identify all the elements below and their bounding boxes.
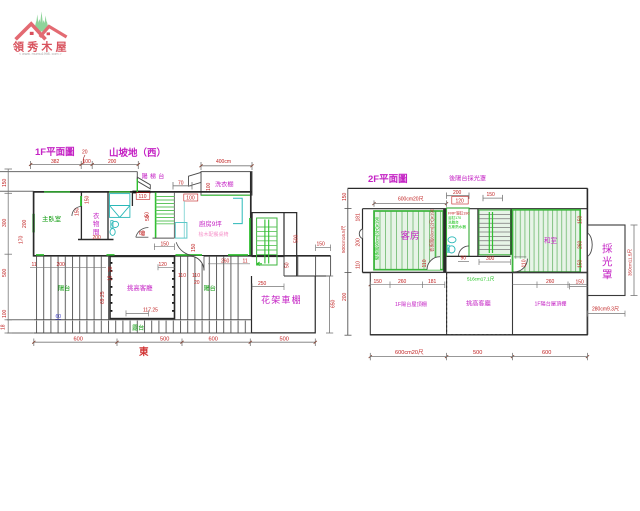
bath toilet xyxy=(448,246,455,253)
deck lower line xyxy=(34,319,251,321)
dim line 400cm xyxy=(201,162,252,170)
svg-text:60: 60 xyxy=(141,230,147,236)
entry steps xyxy=(297,256,299,276)
bath door arc xyxy=(136,228,149,238)
corridor wall xyxy=(477,209,479,257)
window west wall xyxy=(32,214,34,233)
stair1 inner green xyxy=(257,218,277,265)
svg-text:150: 150 xyxy=(577,259,583,268)
svg-text:300: 300 xyxy=(486,256,495,262)
svg-text:挑高客廳: 挑高客廳 xyxy=(466,300,491,308)
svg-text:東: 東 xyxy=(138,346,149,358)
ground line low1 xyxy=(7,319,34,321)
basin xyxy=(110,229,115,236)
svg-text:382: 382 xyxy=(51,159,60,165)
svg-text:170: 170 xyxy=(19,235,25,244)
svg-text:500: 500 xyxy=(294,234,300,243)
svg-text:200: 200 xyxy=(356,238,362,247)
stair1 landing xyxy=(284,213,297,276)
top wall thick seg xyxy=(132,191,150,194)
deck band upper left hatch xyxy=(34,257,110,320)
middle box dashed xyxy=(447,273,513,335)
dim 120 boxed xyxy=(452,196,468,204)
dim 110 boxed xyxy=(136,193,150,200)
svg-text:260: 260 xyxy=(577,240,583,249)
right roof box xyxy=(513,273,588,335)
stair1 outer xyxy=(252,213,284,257)
ground line low2 xyxy=(7,332,34,334)
svg-text:500: 500 xyxy=(2,268,8,277)
svg-text:650: 650 xyxy=(331,299,337,308)
wall under closet xyxy=(78,239,114,241)
svg-text:100: 100 xyxy=(83,159,92,165)
tatami door wedge xyxy=(514,259,527,272)
svg-text:200: 200 xyxy=(93,235,102,241)
logo left roof xyxy=(16,24,46,40)
svg-text:150: 150 xyxy=(342,192,348,201)
svg-text:洗衣棚: 洗衣棚 xyxy=(215,181,234,189)
laundry door flap xyxy=(189,172,202,186)
bath basin xyxy=(448,237,456,243)
left wall xyxy=(362,209,364,273)
guest room hatch xyxy=(374,211,443,270)
deck band lower hatch xyxy=(34,321,251,333)
deck band upper right hatch xyxy=(175,257,241,320)
svg-text:陽台: 陽台 xyxy=(204,285,216,293)
bottom line lower boxes xyxy=(370,334,587,336)
top wall xyxy=(363,208,588,210)
svg-text:150: 150 xyxy=(317,242,326,248)
PLAN1F xyxy=(0,147,589,358)
svg-text:69.25: 69.25 xyxy=(100,291,106,304)
balcony door arc xyxy=(190,256,205,271)
svg-text:主臥室: 主臥室 xyxy=(42,214,62,223)
left dim line xyxy=(5,169,13,333)
stair1 rails xyxy=(264,220,266,264)
left roof box xyxy=(370,273,446,335)
svg-text:110: 110 xyxy=(192,273,200,279)
closet wall xyxy=(80,192,82,240)
svg-text:衣櫥寬60cm(2尺)x190: 衣櫥寬60cm(2尺)x190 xyxy=(429,208,436,252)
svg-text:50: 50 xyxy=(284,262,290,268)
logo trees xyxy=(34,12,48,32)
svg-text:浴缸170: 浴缸170 xyxy=(448,215,461,220)
svg-text:光: 光 xyxy=(602,255,613,268)
svg-text:< www. mumu1998. com >: < www. mumu1998. com > xyxy=(19,52,62,56)
toilet xyxy=(112,221,119,227)
svg-text:2F平面圖: 2F平面圖 xyxy=(368,174,408,185)
svg-text:桧木配餐桌椅: 桧木配餐桌椅 xyxy=(199,231,229,238)
outer top line xyxy=(348,187,588,189)
svg-text:120: 120 xyxy=(456,199,465,205)
wall under bath xyxy=(447,255,511,257)
svg-text:和室: 和室 xyxy=(544,236,558,245)
stairs2 rails xyxy=(488,212,490,253)
kitchen counter xyxy=(233,198,242,223)
svg-text:衣: 衣 xyxy=(93,211,100,220)
master door arc xyxy=(72,207,82,217)
svg-text:600: 600 xyxy=(542,350,551,356)
svg-text:200: 200 xyxy=(342,292,348,301)
rear stair bottom xyxy=(153,237,175,239)
svg-text:117.25: 117.25 xyxy=(143,308,158,314)
logo left roof window xyxy=(30,32,34,35)
svg-text:600cm20尺: 600cm20尺 xyxy=(395,349,424,356)
bottom dim line 2F xyxy=(370,353,587,360)
stairs2 xyxy=(479,210,511,255)
svg-text:500: 500 xyxy=(160,337,169,343)
right wall xyxy=(586,188,588,334)
LOGO xyxy=(12,12,70,57)
svg-text:50: 50 xyxy=(145,215,151,221)
svg-text:挑高客廳: 挑高客廳 xyxy=(127,283,153,292)
svg-text:260: 260 xyxy=(398,279,407,285)
svg-text:181: 181 xyxy=(428,279,437,285)
carport box xyxy=(252,276,316,333)
window top kitchen xyxy=(201,194,250,196)
right wall kitchen xyxy=(250,172,252,257)
svg-text:260: 260 xyxy=(546,279,555,285)
right roof dims xyxy=(513,282,588,289)
svg-text:1F平面圖: 1F平面圖 xyxy=(35,147,75,158)
svg-text:150: 150 xyxy=(374,279,383,285)
pilaster top gray xyxy=(136,172,138,179)
dim 150 skylight line xyxy=(570,283,588,289)
wall stairs-tatami xyxy=(511,209,513,255)
svg-text:600cm20尺: 600cm20尺 xyxy=(398,197,424,203)
living room box xyxy=(110,256,175,318)
wall guest-bath xyxy=(443,209,446,273)
green pilaster top xyxy=(136,179,138,193)
svg-text:150: 150 xyxy=(487,192,496,198)
svg-text:20: 20 xyxy=(108,266,114,272)
yangmeitai door flap xyxy=(137,177,150,189)
door bump right wall xyxy=(587,233,592,257)
laundry box xyxy=(201,172,252,196)
stair1 arrow xyxy=(257,262,262,266)
skylight right dim xyxy=(631,225,638,296)
svg-text:90: 90 xyxy=(461,255,467,261)
svg-text:1F陽台屋頂棚: 1F陽台屋頂棚 xyxy=(535,300,567,308)
PLAN2F xyxy=(341,174,638,360)
svg-text:400cm: 400cm xyxy=(216,159,231,165)
main top wall xyxy=(34,191,252,193)
living room studs xyxy=(111,262,174,312)
bath wall right xyxy=(131,192,133,206)
bath box xyxy=(447,208,470,256)
svg-text:FRP浴缸190: FRP浴缸190 xyxy=(448,211,470,216)
entry platform xyxy=(284,275,331,277)
top wall window segs xyxy=(44,191,70,193)
svg-text:壁櫥寬90cm(3尺)x190: 壁櫥寬90cm(3尺)x190 xyxy=(374,216,381,260)
svg-text:300: 300 xyxy=(2,218,8,227)
logo right roof xyxy=(40,26,67,37)
svg-text:110: 110 xyxy=(422,259,428,267)
hall door arc xyxy=(176,242,196,255)
stair1 treads xyxy=(257,227,277,255)
svg-text:110: 110 xyxy=(522,259,528,267)
svg-text:250: 250 xyxy=(258,281,267,287)
svg-text:陽梯台: 陽梯台 xyxy=(142,173,167,181)
pantry cyan line xyxy=(183,201,185,238)
svg-text:150: 150 xyxy=(577,215,583,224)
top dim line xyxy=(31,161,139,169)
rear stair left green xyxy=(155,192,157,238)
pantry cyan box xyxy=(175,223,187,239)
ground line mid xyxy=(0,190,34,192)
svg-text:500: 500 xyxy=(473,350,482,356)
tatami room xyxy=(513,210,581,272)
svg-text:150: 150 xyxy=(191,243,197,252)
stairs2 treads xyxy=(479,214,511,249)
svg-text:18: 18 xyxy=(108,275,114,281)
svg-text:山坡地（西）: 山坡地（西） xyxy=(109,147,166,159)
svg-text:1F陽台屋頂棚: 1F陽台屋頂棚 xyxy=(395,300,427,308)
svg-text:露台: 露台 xyxy=(132,324,144,332)
entry west line xyxy=(283,257,285,277)
svg-text:110: 110 xyxy=(139,194,147,200)
closet wall window xyxy=(80,196,82,206)
outer left dim line xyxy=(347,188,349,335)
bottom wall xyxy=(34,255,331,257)
svg-text:後陽台採光罩: 後陽台採光罩 xyxy=(449,175,486,183)
left wall xyxy=(33,191,35,256)
kitchen dim 100 boxed xyxy=(184,194,198,201)
svg-text:100: 100 xyxy=(186,196,195,202)
svg-text:洗臉台: 洗臉台 xyxy=(448,220,459,225)
dim arrows xyxy=(29,163,589,358)
svg-text:200: 200 xyxy=(453,190,462,196)
svg-text:600: 600 xyxy=(209,337,218,343)
bath door arc xyxy=(459,246,470,257)
svg-text:200: 200 xyxy=(22,219,28,228)
left roof dims xyxy=(370,282,445,289)
svg-text:花架車棚: 花架車棚 xyxy=(261,294,302,305)
svg-text:60: 60 xyxy=(56,314,62,320)
svg-text:客房: 客房 xyxy=(401,230,420,242)
svg-text:20: 20 xyxy=(194,280,200,286)
guest door arc xyxy=(427,257,440,270)
svg-text:181: 181 xyxy=(356,213,362,222)
window kitchen east wall xyxy=(249,218,251,255)
svg-text:物: 物 xyxy=(93,219,100,228)
svg-text:200: 200 xyxy=(108,159,117,165)
bottom dim line xyxy=(34,339,316,347)
svg-text:600: 600 xyxy=(74,337,83,343)
svg-text:280cm9.3尺: 280cm9.3尺 xyxy=(592,306,619,312)
shower stall xyxy=(110,194,130,218)
logo right roof window xyxy=(47,32,50,35)
svg-text:150: 150 xyxy=(576,280,585,286)
svg-text:100: 100 xyxy=(206,182,212,191)
svg-text:150: 150 xyxy=(2,178,8,187)
svg-text:瓦斯熱水器: 瓦斯熱水器 xyxy=(448,224,466,229)
bottom wall window segs xyxy=(36,254,44,256)
carport dim line right xyxy=(326,276,333,333)
svg-text:100: 100 xyxy=(2,309,8,318)
svg-text:110: 110 xyxy=(178,273,186,279)
svg-text:500: 500 xyxy=(280,337,289,343)
svg-text:罩: 罩 xyxy=(602,269,613,281)
deck bottom line xyxy=(34,332,252,334)
svg-text:陽台: 陽台 xyxy=(58,285,70,293)
rear stair right edge xyxy=(173,192,175,238)
svg-text:110: 110 xyxy=(356,261,362,269)
svg-text:廚房9坪: 廚房9坪 xyxy=(199,219,222,228)
svg-text:20: 20 xyxy=(82,150,88,156)
bath wall left xyxy=(107,192,109,240)
west wall door bump xyxy=(359,229,362,239)
skylight box xyxy=(587,225,625,296)
ground line upper xyxy=(0,171,137,173)
svg-text:150: 150 xyxy=(85,195,91,204)
svg-text:18: 18 xyxy=(1,324,7,330)
rear stair treads xyxy=(156,197,175,224)
closet partition xyxy=(435,211,437,262)
svg-text:採: 採 xyxy=(602,242,613,255)
lower wall xyxy=(363,272,588,274)
